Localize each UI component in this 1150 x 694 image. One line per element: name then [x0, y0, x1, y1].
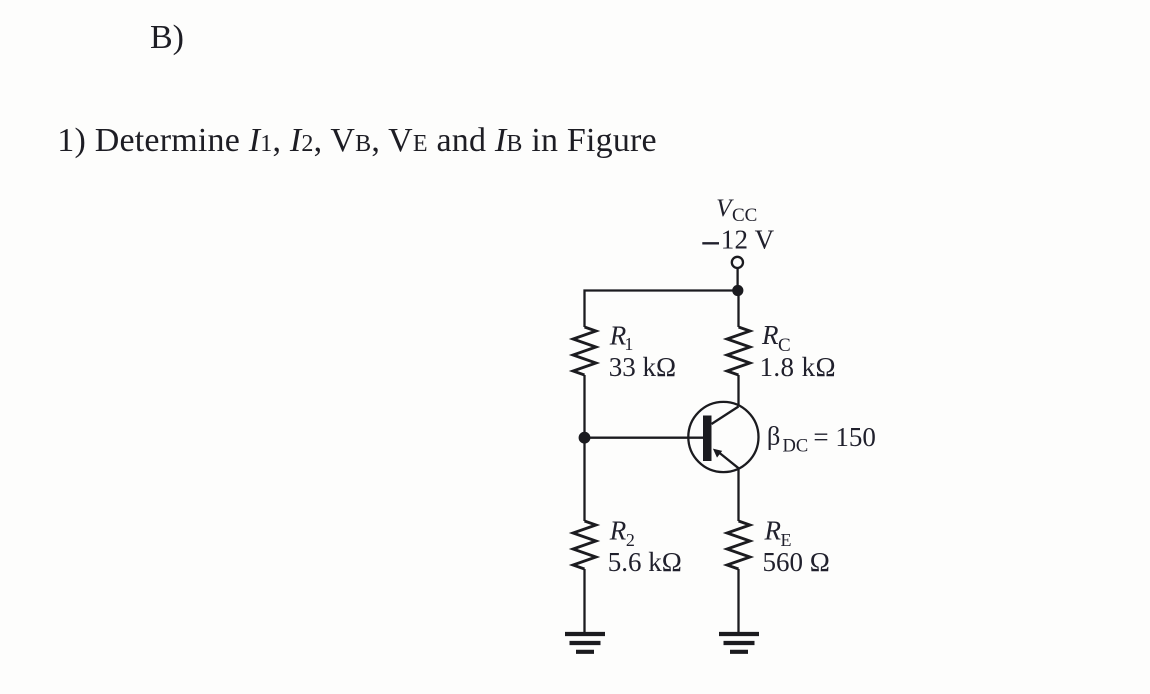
transistor Q1 circle [688, 402, 758, 472]
resistor RE [727, 521, 750, 569]
svg-text:β: β [767, 420, 780, 450]
wire R1 bottom to R2 top through node [583, 375, 585, 521]
ground right [719, 634, 759, 652]
ground left [565, 634, 605, 652]
resistor R2 [573, 521, 596, 569]
resistor RC [727, 327, 750, 375]
heading B) [150, 19, 184, 57]
wire R2 bottom to left ground [583, 569, 585, 634]
svg-text:DC: DC [783, 437, 809, 457]
svg-text:12 V: 12 V [721, 225, 775, 255]
wire emitter to RE top [737, 468, 739, 521]
node dot at base divider [579, 432, 591, 444]
svg-text:33 kΩ: 33 kΩ [609, 352, 676, 382]
svg-text:1: 1 [624, 334, 633, 354]
junction dot at Vcc rail [732, 285, 743, 296]
transistor Q1 base bar [703, 416, 712, 462]
transistor Q1 emitter arrow [713, 449, 722, 458]
svg-text:= 150: = 150 [813, 422, 875, 452]
wire RE bottom to right ground [737, 569, 739, 634]
wire top rail from left branch to Vcc junction [585, 291, 738, 328]
wire Vcc terminal to junction and down to RC [736, 268, 739, 328]
resistor R1 [573, 327, 596, 375]
svg-text:5.6 kΩ: 5.6 kΩ [608, 547, 682, 577]
circuit schematic [540, 185, 910, 694]
Vcc terminal (open circle) [732, 257, 743, 268]
problem statement [57, 122, 657, 160]
wire RC bottom to collector [737, 375, 739, 407]
svg-text:560 Ω: 560 Ω [763, 547, 830, 577]
transistor Q1 collector lead [712, 407, 739, 425]
svg-text:R: R [764, 516, 782, 546]
transistor Q1 emitter lead [719, 453, 739, 469]
svg-text:1.8 kΩ: 1.8 kΩ [760, 352, 836, 382]
label -12 V minus sign [702, 242, 719, 244]
svg-text:R: R [609, 516, 627, 546]
svg-text:CC: CC [732, 205, 757, 226]
wire base from node to transistor [585, 437, 704, 439]
svg-text:R: R [761, 320, 779, 350]
